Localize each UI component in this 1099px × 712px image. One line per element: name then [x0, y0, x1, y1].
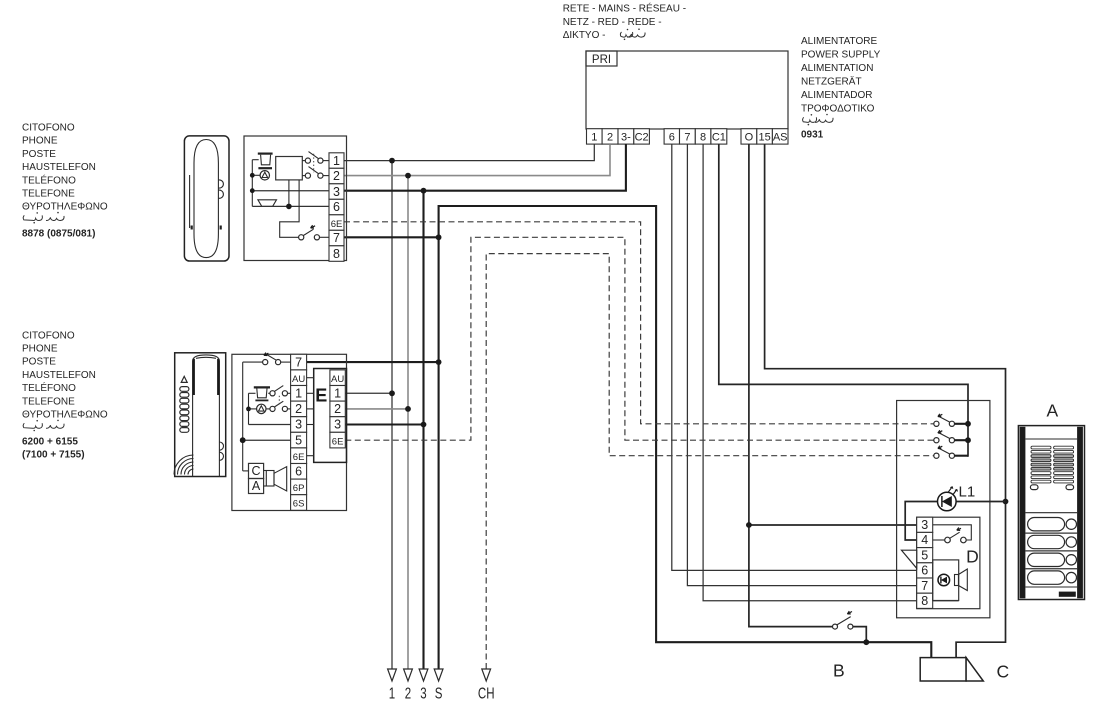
- svg-text:6E: 6E: [293, 452, 305, 463]
- svg-text:ALIMENTATORE: ALIMENTATORE: [801, 36, 877, 47]
- svg-text:6E: 6E: [332, 436, 344, 447]
- svg-text:7: 7: [921, 579, 928, 593]
- svg-text:TELEFONE: TELEFONE: [22, 396, 75, 407]
- svg-text:A: A: [252, 479, 261, 493]
- svg-text:1: 1: [295, 387, 302, 401]
- svg-text:2: 2: [295, 402, 302, 416]
- svg-text:B: B: [833, 661, 845, 681]
- svg-text:PHONE: PHONE: [22, 136, 58, 147]
- svg-text:C: C: [997, 662, 1010, 682]
- svg-text:AS: AS: [773, 132, 788, 144]
- svg-text:6P: 6P: [293, 483, 305, 494]
- svg-text:6: 6: [295, 465, 302, 479]
- svg-text:1: 1: [334, 387, 341, 401]
- svg-text:15: 15: [758, 132, 770, 144]
- svg-text:L1: L1: [959, 484, 976, 501]
- svg-text:8: 8: [700, 132, 706, 144]
- svg-text:CITOFONO: CITOFONO: [22, 330, 75, 341]
- svg-text:6: 6: [333, 200, 340, 214]
- svg-text:D: D: [966, 547, 979, 567]
- svg-text:7: 7: [295, 355, 302, 369]
- svg-text:1: 1: [591, 132, 597, 144]
- svg-text:C1: C1: [712, 132, 726, 144]
- svg-text:7: 7: [684, 132, 690, 144]
- svg-text:6: 6: [921, 564, 928, 578]
- svg-text:1: 1: [333, 154, 340, 168]
- svg-text:S: S: [435, 684, 443, 702]
- svg-text:A: A: [1047, 401, 1059, 421]
- svg-text:ALIMENTADOR: ALIMENTADOR: [801, 90, 873, 101]
- svg-text:7: 7: [333, 231, 340, 245]
- svg-text:POSTE: POSTE: [22, 357, 56, 368]
- svg-text:E: E: [315, 386, 327, 406]
- svg-text:HAUSTELEFON: HAUSTELEFON: [22, 370, 96, 381]
- svg-text:TELÉFONO: TELÉFONO: [22, 381, 76, 394]
- svg-text:ΘΥΡΟΤΗΛΕΦΩΝΟ: ΘΥΡΟΤΗΛΕΦΩΝΟ: [22, 410, 108, 421]
- svg-text:6E: 6E: [331, 219, 343, 230]
- svg-text:3-: 3-: [621, 132, 631, 144]
- svg-text:0931: 0931: [801, 129, 824, 140]
- svg-text:TELEFONE: TELEFONE: [22, 189, 75, 200]
- svg-text:POSTE: POSTE: [22, 149, 56, 160]
- svg-text:PRI: PRI: [592, 54, 611, 66]
- svg-text:3: 3: [334, 418, 341, 432]
- svg-text:6: 6: [669, 132, 675, 144]
- svg-text:3: 3: [295, 418, 302, 432]
- svg-text:AU: AU: [331, 374, 344, 385]
- svg-text:O: O: [745, 132, 754, 144]
- svg-text:2: 2: [607, 132, 613, 144]
- svg-text:5: 5: [921, 548, 928, 562]
- svg-text:6S: 6S: [293, 499, 305, 510]
- svg-text:ALIMENTATION: ALIMENTATION: [801, 63, 873, 74]
- svg-text:C: C: [251, 464, 260, 478]
- svg-text:6200 + 6155: 6200 + 6155: [22, 436, 78, 447]
- svg-text:POWER SUPPLY: POWER SUPPLY: [801, 49, 881, 60]
- svg-text:3: 3: [333, 185, 340, 199]
- svg-text:NETZ - RED - REDE -: NETZ - RED - REDE -: [563, 17, 662, 28]
- svg-text:HAUSTELEFON: HAUSTELEFON: [22, 162, 96, 173]
- svg-text:8: 8: [921, 594, 928, 608]
- svg-text:2: 2: [333, 169, 340, 183]
- svg-text:1: 1: [389, 684, 396, 702]
- svg-text:3: 3: [420, 684, 427, 702]
- svg-text:5: 5: [295, 433, 302, 447]
- svg-text:(7100 + 7155): (7100 + 7155): [22, 450, 85, 461]
- svg-text:ΔIKTYO -: ΔIKTYO -: [563, 30, 606, 41]
- svg-text:NETZGERÄT: NETZGERÄT: [801, 75, 862, 87]
- svg-text:AU: AU: [292, 374, 305, 385]
- svg-text:8878 (0875/081): 8878 (0875/081): [22, 229, 95, 240]
- svg-text:TELÉFONO: TELÉFONO: [22, 173, 76, 186]
- svg-text:PHONE: PHONE: [22, 344, 58, 355]
- svg-text:CH: CH: [478, 684, 495, 702]
- svg-text:2: 2: [334, 402, 341, 416]
- svg-text:CITOFONO: CITOFONO: [22, 123, 75, 134]
- svg-text:3: 3: [921, 518, 928, 532]
- svg-text:C2: C2: [635, 132, 649, 144]
- svg-text:8: 8: [333, 247, 340, 261]
- svg-text:2: 2: [405, 684, 412, 702]
- svg-text:RETE - MAINS - RÉSEAU -: RETE - MAINS - RÉSEAU -: [563, 2, 686, 15]
- svg-text:ΘΥΡΟΤΗΛΕΦΩΝΟ: ΘΥΡΟΤΗΛΕΦΩΝΟ: [22, 202, 108, 213]
- svg-text:ΤΡΟΦΟΔΟΤΙΚΟ: ΤΡΟΦΟΔΟΤΙΚΟ: [801, 103, 875, 114]
- svg-text:4: 4: [921, 533, 928, 547]
